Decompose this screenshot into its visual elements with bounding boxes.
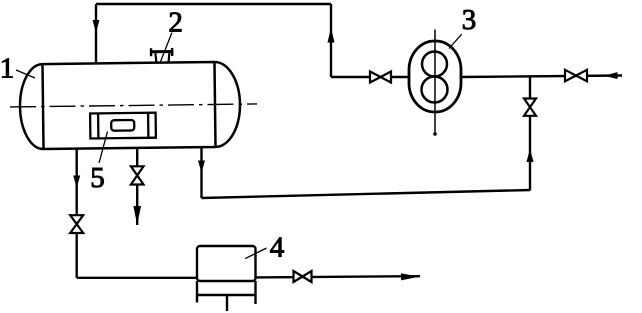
pump 3 lower rotor [422, 77, 448, 103]
svg-text:1: 1 [0, 53, 14, 85]
arrow up in right riser [328, 28, 335, 43]
valve on right inlet line [565, 70, 587, 82]
pipe: pump right-side line to edge [461, 76, 622, 78]
arrow down on middle drain [133, 206, 141, 225]
vessel centerline [10, 104, 257, 107]
pipe: product outlet run [256, 276, 421, 277]
tank 4 bottom stub pipe [226, 295, 228, 311]
internal element 5 inner window [111, 120, 134, 131]
leader for label 2 [160, 33, 172, 62]
pump 3 upper rotor [422, 52, 447, 77]
valve on product outlet [294, 271, 312, 282]
svg-text:3: 3 [462, 4, 477, 36]
valve on recirculation riser [524, 99, 536, 116]
valve between riser and pump [370, 72, 391, 83]
arrow down on vessel bottom right drop [198, 161, 205, 174]
vessel V1 shell [19, 62, 240, 150]
vessel middle drain pipe [136, 148, 138, 225]
pipe: top horizontal run [96, 3, 331, 5]
pipe: run to tank 4 [77, 277, 197, 279]
pipe: vessel bottom left drop [75, 148, 77, 278]
pipe: pump suction/discharge horizontal run [331, 76, 409, 78]
svg-text:4: 4 [270, 232, 285, 264]
tank 4 lower band [197, 294, 256, 296]
internal element 5 end plates [98, 113, 148, 139]
arrow down into vessel [93, 20, 100, 33]
pipe: recirculation riser [529, 76, 531, 190]
svg-text:2: 2 [168, 6, 183, 38]
pump 3 casing [409, 41, 461, 112]
pump 3 axis line [434, 30, 436, 136]
arrow up on recirculation riser [527, 149, 534, 163]
pipe: vessel top riser (inlet) [95, 4, 97, 63]
leader for label 3 [449, 34, 462, 48]
pipe: vessel bottom right drop [200, 147, 202, 199]
pipe: right riser from pump line [330, 4, 332, 77]
valve on middle drain [131, 166, 144, 184]
nozzle 2 flange bar [150, 50, 173, 53]
nozzle 2 flange ticks [151, 48, 172, 56]
pump 3 axis end dot [433, 132, 437, 136]
leader for label 4 [245, 248, 266, 259]
tank 4 body [197, 246, 256, 281]
leader for label 5 [99, 132, 108, 164]
svg-text:5: 5 [90, 162, 105, 194]
arrow down on bottom left drop [73, 176, 80, 189]
nozzle 2 legs [155, 53, 169, 63]
internal element 5 outer box [90, 113, 156, 139]
tank 4 right skirt [254, 281, 256, 304]
valve on bottom left drop [70, 215, 83, 233]
arrow pointing left (feed in) [604, 72, 618, 79]
pipe: bottom recirculation run [202, 190, 531, 198]
arrow right on product outlet [401, 273, 419, 280]
tank 4 left skirt [196, 281, 198, 303]
leader for label 1 [16, 70, 35, 78]
